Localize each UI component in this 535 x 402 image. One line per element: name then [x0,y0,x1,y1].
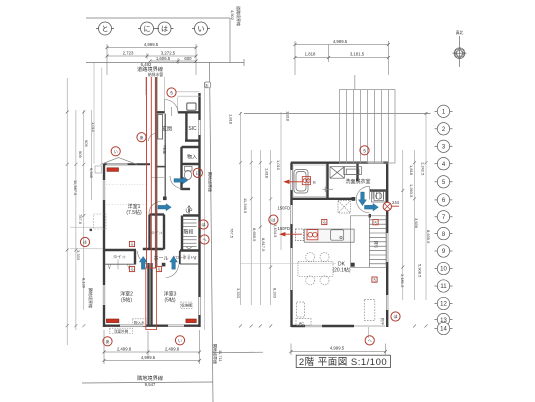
svg-text:1,363.5: 1,363.5 [409,184,414,198]
svg-text:244: 244 [392,200,400,205]
svg-text:ろ: ろ [373,277,377,282]
svg-text:12: 12 [440,302,447,308]
svg-text:ろ: ろ [374,220,378,225]
svg-text:に: に [144,25,151,33]
svg-text:1,818: 1,818 [229,114,234,125]
svg-text:9,547: 9,547 [145,382,156,387]
svg-text:2,181.5: 2,181.5 [400,274,405,288]
svg-text:SIC: SIC [188,126,197,132]
svg-text:1,818: 1,818 [265,168,270,179]
svg-text:8,333: 8,333 [273,288,278,299]
svg-text:お: お [205,83,209,88]
svg-text:1,606.5: 1,606.5 [156,56,171,61]
svg-text:ｸﾛｰｾﾞｯﾄ: ｸﾛｰｾﾞｯﾄ [113,254,126,259]
svg-text:13: 13 [440,318,447,324]
svg-text:い: い [178,338,182,343]
svg-text:4,999.5: 4,999.5 [333,39,348,44]
svg-text:は: は [161,25,168,33]
svg-text:ろ: ろ [130,267,134,272]
svg-text:8,139: 8,139 [82,278,87,289]
svg-text:UP: UP [186,209,194,215]
svg-text:14: 14 [440,327,447,333]
svg-text:3,333: 3,333 [236,288,241,299]
svg-text:洋室2: 洋室2 [120,291,133,298]
svg-text:757.5: 757.5 [78,214,83,225]
svg-text:ろ: ろ [130,242,134,247]
svg-text:4,999.5: 4,999.5 [144,42,159,47]
svg-text:2,499.8: 2,499.8 [165,347,180,352]
svg-text:150FD: 150FD [278,206,291,211]
svg-text:3,272.5: 3,272.5 [161,51,176,56]
svg-text:4,502: 4,502 [230,10,235,21]
svg-text:4,999.5: 4,999.5 [330,346,345,351]
svg-text:150FD: 150FD [278,226,291,231]
svg-text:1,818: 1,818 [409,165,414,176]
svg-text:隣地境界線: 隣地境界線 [137,374,163,382]
svg-text:2階 平面図 S:1/100: 2階 平面図 S:1/100 [299,357,387,368]
svg-text:隣地境界線: 隣地境界線 [213,344,219,364]
svg-text:3,636: 3,636 [414,218,419,229]
svg-text:洋室外側: 洋室外側 [114,328,129,333]
svg-text:(5帖): (5帖) [121,297,132,304]
svg-text:5,908.5: 5,908.5 [418,264,423,278]
svg-text:11: 11 [440,284,447,290]
svg-text:洋室1: 洋室1 [128,203,141,210]
svg-text:11,387.5: 11,387.5 [73,180,78,196]
svg-text:8,635.5: 8,635.5 [426,230,431,244]
svg-text:隣地境界線: 隣地境界線 [88,288,94,308]
svg-text:8,695.5: 8,695.5 [252,228,257,242]
svg-text:2,499.8: 2,499.8 [117,347,132,352]
svg-text:(5帖): (5帖) [164,297,175,304]
svg-text:1,010: 1,010 [276,160,281,171]
svg-text:2,723: 2,723 [123,51,134,56]
svg-text:降り: 降り [374,241,379,249]
svg-text:1,010: 1,010 [91,122,96,133]
svg-text:階段: 階段 [183,229,193,236]
svg-text:へ: へ [202,237,206,242]
svg-text:4,999.5: 4,999.5 [141,355,156,360]
svg-text:AC: AC [299,322,304,326]
svg-text:物干: 物干 [380,318,385,326]
svg-text:(20.1帖): (20.1帖) [332,267,350,274]
svg-text:クローゼット: クローゼット [172,255,194,260]
svg-text:給排水管: 給排水管 [148,72,163,77]
svg-text:道路境界線: 道路境界線 [137,65,163,73]
svg-text:隣地境界線: 隣地境界線 [208,172,214,192]
svg-text:道路境界線: 道路境界線 [236,6,242,26]
svg-text:11,340.5: 11,340.5 [243,198,248,214]
svg-text:真北: 真北 [456,30,464,35]
svg-text:玄関: 玄関 [162,126,172,133]
svg-text:と: と [102,25,109,33]
svg-text:い: い [198,25,205,33]
svg-text:11,711: 11,711 [218,350,223,362]
svg-text:10: 10 [440,267,447,273]
svg-text:909: 909 [84,140,89,147]
svg-text:い: い [114,149,118,154]
svg-text:1,818: 1,818 [305,52,316,57]
svg-text:3,181.5: 3,181.5 [350,52,365,57]
svg-text:ろ: ろ [323,220,327,225]
svg-text:へ: へ [368,338,372,343]
svg-text:600: 600 [184,56,192,61]
svg-text:洗面脱衣室: 洗面脱衣室 [345,178,370,185]
svg-text:6,545: 6,545 [89,168,94,179]
svg-text:3,333: 3,333 [76,250,81,261]
svg-text:洋室3: 洋室3 [164,291,177,298]
svg-text:B: B [313,180,316,185]
svg-text:下駄箱: 下駄箱 [162,145,167,154]
svg-text:767.5: 767.5 [230,228,235,239]
svg-text:8,817.5: 8,817.5 [261,238,266,252]
svg-text:(7.5帖): (7.5帖) [126,209,142,216]
svg-text:ホール: ホール [153,256,168,262]
svg-text:ろ: ろ [157,267,161,272]
svg-text:収納棚: 収納棚 [181,303,192,308]
svg-text:物入: 物入 [187,154,197,161]
svg-text:1,818: 1,818 [286,111,291,122]
svg-text:909: 909 [78,151,83,158]
